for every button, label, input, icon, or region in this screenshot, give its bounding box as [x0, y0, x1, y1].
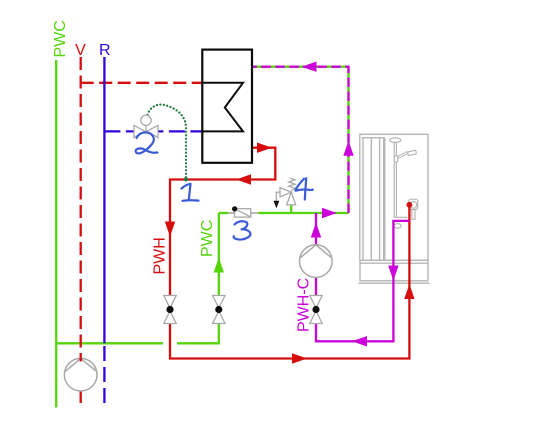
safety valve 4 [276, 178, 295, 205]
shower handset [394, 150, 416, 162]
pipe V branch to tank (red dashed) [81, 82, 203, 84]
circulation pump on PWH-C [300, 245, 333, 278]
arrow magenta left on bottom return [352, 336, 367, 346]
isolation valve on PWC riser [213, 296, 225, 324]
isolation valve on PWH riser [164, 296, 176, 324]
pipe PWC top horizontal to mixing point [219, 212, 228, 214]
svg-text:PWH: PWH [152, 237, 169, 274]
numeral 3 (blue script) [234, 221, 251, 239]
pipe PWC riser [218, 213, 220, 344]
arrow magenta up above pump [311, 223, 321, 238]
pipe blended return to tank (green under magenta dashes) [252, 67, 349, 213]
svg-text:V: V [75, 42, 86, 59]
arrow red right on bottom run [292, 353, 307, 363]
pipe R vertical dashed lower (blue) [103, 346, 105, 408]
valve 2 motorized on R branch [134, 115, 158, 137]
pipe PWC bottom horizontal right segment [177, 342, 219, 344]
svg-text:PWC: PWC [52, 20, 69, 57]
svg-text:PWC: PWC [199, 220, 216, 257]
arrow magenta up on blended vertical [343, 141, 353, 156]
check valve 3 on PWC line [228, 206, 258, 217]
red dash stub at pump top [80, 358, 82, 362]
pump on V line (bottom left) [64, 358, 97, 391]
arrow magenta down from shower [388, 266, 398, 281]
pipe PWC main vertical (green) [55, 60, 57, 408]
pipe blended return magenta dashed overlay [252, 67, 349, 213]
pipe V vertical (red dashed) [80, 57, 82, 408]
numeral 1 (blue script) [182, 184, 199, 201]
pipe stub to safety valve [290, 205, 292, 213]
sensor connection node on red pipe [184, 177, 188, 181]
svg-text:R: R [99, 42, 111, 59]
shower drain [394, 224, 401, 229]
pipe R vertical solid (blue) [103, 57, 105, 343]
arrow magenta right on mixed line [322, 208, 337, 218]
shower column [390, 138, 408, 217]
safety valve drain arrow (black) [274, 201, 280, 209]
arrow red down on PWH riser [165, 222, 175, 237]
arrow green up on PWC riser [214, 258, 224, 273]
pipe R branch to tank (blue dashed) [104, 130, 202, 132]
pipe PWH-C circulation return (magenta) [316, 213, 410, 341]
arrow magenta left on blended top run [302, 62, 317, 72]
arrow red up to shower [404, 284, 414, 299]
numeral 2 (blue script) [136, 132, 158, 153]
shower cabin enclosure [360, 134, 428, 260]
pipe PWH hot supply (red) [170, 148, 409, 359]
arrow red left above tank outlet run [236, 174, 251, 184]
tank / cylinder with heat exchanger [202, 50, 252, 163]
sensor line dotted (dark green) [148, 105, 187, 179]
shower tray [358, 260, 429, 283]
isolation valve on PWH-C line [310, 296, 322, 324]
shower supply node (red dot) [407, 202, 413, 208]
arrow red right at tank outlet [257, 143, 272, 153]
numeral 4 (blue script) [295, 178, 312, 199]
shower mixer box [409, 199, 418, 219]
pipe PWC bottom horizontal left segment [56, 342, 163, 344]
svg-text:PWH-C: PWH-C [296, 278, 313, 332]
